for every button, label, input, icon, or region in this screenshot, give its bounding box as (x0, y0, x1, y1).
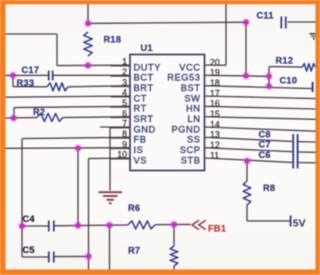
wire (173, 266, 175, 270)
node FB/C4 (18, 222, 26, 230)
wire (56, 34, 58, 66)
svg-text:5: 5 (122, 98, 127, 108)
svg-text:VCC: VCC (179, 62, 200, 72)
node REG53 b (265, 72, 273, 80)
svg-text:SW: SW (184, 93, 200, 103)
node STB/R8 (243, 157, 251, 165)
wire (68, 86, 130, 87)
wire (77, 148, 79, 225)
wire (246, 161, 248, 181)
svg-text:9: 9 (122, 139, 127, 149)
wire (205, 86, 312, 89)
svg-text:C11: C11 (257, 11, 274, 21)
svg-text:DUTY: DUTY (134, 62, 162, 72)
svg-text:3: 3 (122, 77, 127, 87)
svg-text:7: 7 (122, 119, 127, 129)
wire (55, 255, 89, 257)
svg-text:12: 12 (210, 140, 220, 150)
capacitor C4 (49, 221, 54, 232)
svg-text:BRT: BRT (134, 83, 154, 93)
svg-text:REG53: REG53 (167, 73, 200, 83)
resistor R8 (243, 181, 251, 205)
node C17/R33 (9, 72, 17, 80)
svg-text:C7: C7 (259, 140, 271, 150)
wire (225, 4, 227, 65)
svg-text:R18: R18 (104, 35, 122, 45)
svg-text:BCT: BCT (134, 73, 154, 83)
wire (22, 256, 48, 258)
svg-text:15: 15 (210, 109, 220, 119)
op-amp U1 body (130, 55, 205, 171)
wire (298, 141, 316, 143)
capacitor C11 (281, 17, 286, 29)
ferrite bead FB1 (192, 220, 206, 229)
wire (269, 66, 302, 69)
wire pin 2 stub (111, 75, 131, 77)
wire (155, 223, 191, 225)
wire (298, 162, 316, 164)
svg-text:FB: FB (134, 135, 147, 145)
svg-text:C4: C4 (23, 214, 36, 224)
wire (205, 127, 316, 131)
resistor R12 (302, 64, 316, 72)
svg-text:8: 8 (122, 129, 127, 139)
wire (288, 21, 316, 23)
wire (110, 224, 129, 226)
wire (205, 75, 270, 76)
wire (88, 159, 90, 257)
node IS node (74, 144, 82, 152)
wire pin 5 stub (111, 106, 131, 108)
node R18 bottom (84, 62, 92, 70)
wire (6, 74, 49, 76)
svg-text:4: 4 (122, 88, 127, 98)
svg-text:2: 2 (122, 67, 127, 77)
svg-text:PGND: PGND (171, 124, 200, 134)
svg-text:6: 6 (122, 108, 127, 118)
svg-text:LN: LN (188, 114, 201, 124)
svg-text:5V: 5V (293, 219, 306, 230)
svg-text:20: 20 (210, 57, 220, 67)
wire (22, 137, 130, 138)
resistor R7 (170, 246, 178, 266)
wire (109, 225, 111, 269)
svg-text:19: 19 (210, 68, 220, 78)
wire pin 1 stub (111, 65, 131, 67)
wire (6, 33, 58, 35)
svg-text:13: 13 (210, 130, 220, 140)
wire (21, 139, 23, 257)
node REG53 a (242, 72, 250, 80)
ground (99, 192, 123, 203)
wire (13, 108, 15, 118)
svg-text:BST: BST (181, 83, 201, 93)
svg-text:R33: R33 (17, 78, 35, 88)
svg-text:U1: U1 (141, 43, 153, 53)
svg-text:1: 1 (122, 57, 127, 67)
svg-text:HN: HN (186, 104, 201, 114)
wire (22, 225, 48, 227)
svg-text:14: 14 (210, 119, 220, 129)
svg-text:VS: VS (134, 155, 148, 165)
wire (205, 64, 227, 66)
wire (57, 64, 130, 66)
svg-text:IS: IS (134, 145, 144, 155)
node R6/R7 (170, 221, 178, 229)
wire (246, 205, 248, 221)
svg-text:C6: C6 (259, 150, 271, 160)
resistor R6 (128, 221, 155, 229)
resistor R18 (84, 32, 92, 56)
svg-text:16: 16 (210, 99, 220, 109)
svg-text:C5: C5 (23, 245, 35, 255)
wire (247, 220, 290, 222)
svg-text:R12: R12 (276, 56, 294, 66)
svg-text:R2: R2 (33, 107, 45, 117)
power 5V (290, 216, 292, 227)
node RT/SRT (10, 114, 18, 122)
resistor R33 (47, 83, 68, 91)
svg-text:FB1: FB1 (208, 223, 226, 233)
wire (89, 157, 131, 160)
svg-text:R6: R6 (128, 203, 140, 213)
capacitor C17 (49, 71, 53, 81)
wire (55, 224, 110, 227)
svg-text:11: 11 (210, 150, 219, 160)
svg-text:C8: C8 (259, 129, 271, 139)
wire (13, 86, 47, 88)
wire (109, 127, 111, 191)
wire pin 10 stub (111, 158, 131, 160)
svg-text:SRT: SRT (134, 114, 154, 124)
wire (173, 225, 175, 247)
wire (6, 117, 38, 119)
wire (88, 256, 90, 269)
wire (205, 96, 316, 99)
svg-text:C17: C17 (22, 65, 40, 75)
node R18 top (84, 20, 92, 28)
svg-text:STB: STB (181, 155, 201, 165)
wire pin 6 stub (111, 117, 131, 119)
capacitor C10 (312, 82, 314, 92)
wire pin 8 stub (111, 137, 131, 139)
svg-text:RT: RT (134, 104, 147, 114)
wire pin 7 stub (111, 127, 131, 129)
resistor R2 (37, 113, 63, 121)
node C11 tap (242, 18, 250, 26)
node BST/C10 (265, 82, 273, 90)
wire (14, 106, 130, 107)
wire (63, 116, 130, 119)
svg-text:18: 18 (210, 78, 220, 88)
wire pin 9 stub (111, 148, 131, 150)
wire (6, 96, 131, 97)
capacitor C5 (49, 252, 54, 263)
node C5 node (85, 253, 93, 261)
net label fragment (right border) (310, 34, 316, 40)
wire (205, 106, 316, 109)
svg-text:R7: R7 (128, 246, 140, 256)
wire (53, 74, 130, 76)
wire (205, 137, 293, 141)
svg-text:10: 10 (117, 150, 127, 160)
wire (205, 117, 316, 120)
svg-text:SCP: SCP (180, 145, 201, 155)
wire (88, 22, 246, 23)
wire (205, 148, 293, 152)
wire (6, 147, 131, 150)
capacitors C8 C7 C6 bank plates (293, 134, 297, 169)
node R6 left (106, 221, 114, 229)
svg-text:R8: R8 (263, 183, 275, 193)
wire (268, 67, 270, 87)
wire pin 4 stub (111, 96, 131, 98)
wire (100, 126, 130, 128)
svg-text:17: 17 (210, 88, 220, 98)
wire (298, 151, 316, 153)
wire (245, 22, 247, 76)
svg-text:GND: GND (134, 124, 156, 134)
wire (87, 4, 89, 23)
wire pin 3 stub (111, 86, 131, 88)
wire (12, 75, 14, 86)
svg-text:CT: CT (134, 93, 148, 103)
wire (205, 158, 293, 162)
svg-text:C10: C10 (280, 76, 298, 86)
svg-text:SS: SS (187, 135, 201, 145)
node C4 mid (74, 222, 82, 230)
